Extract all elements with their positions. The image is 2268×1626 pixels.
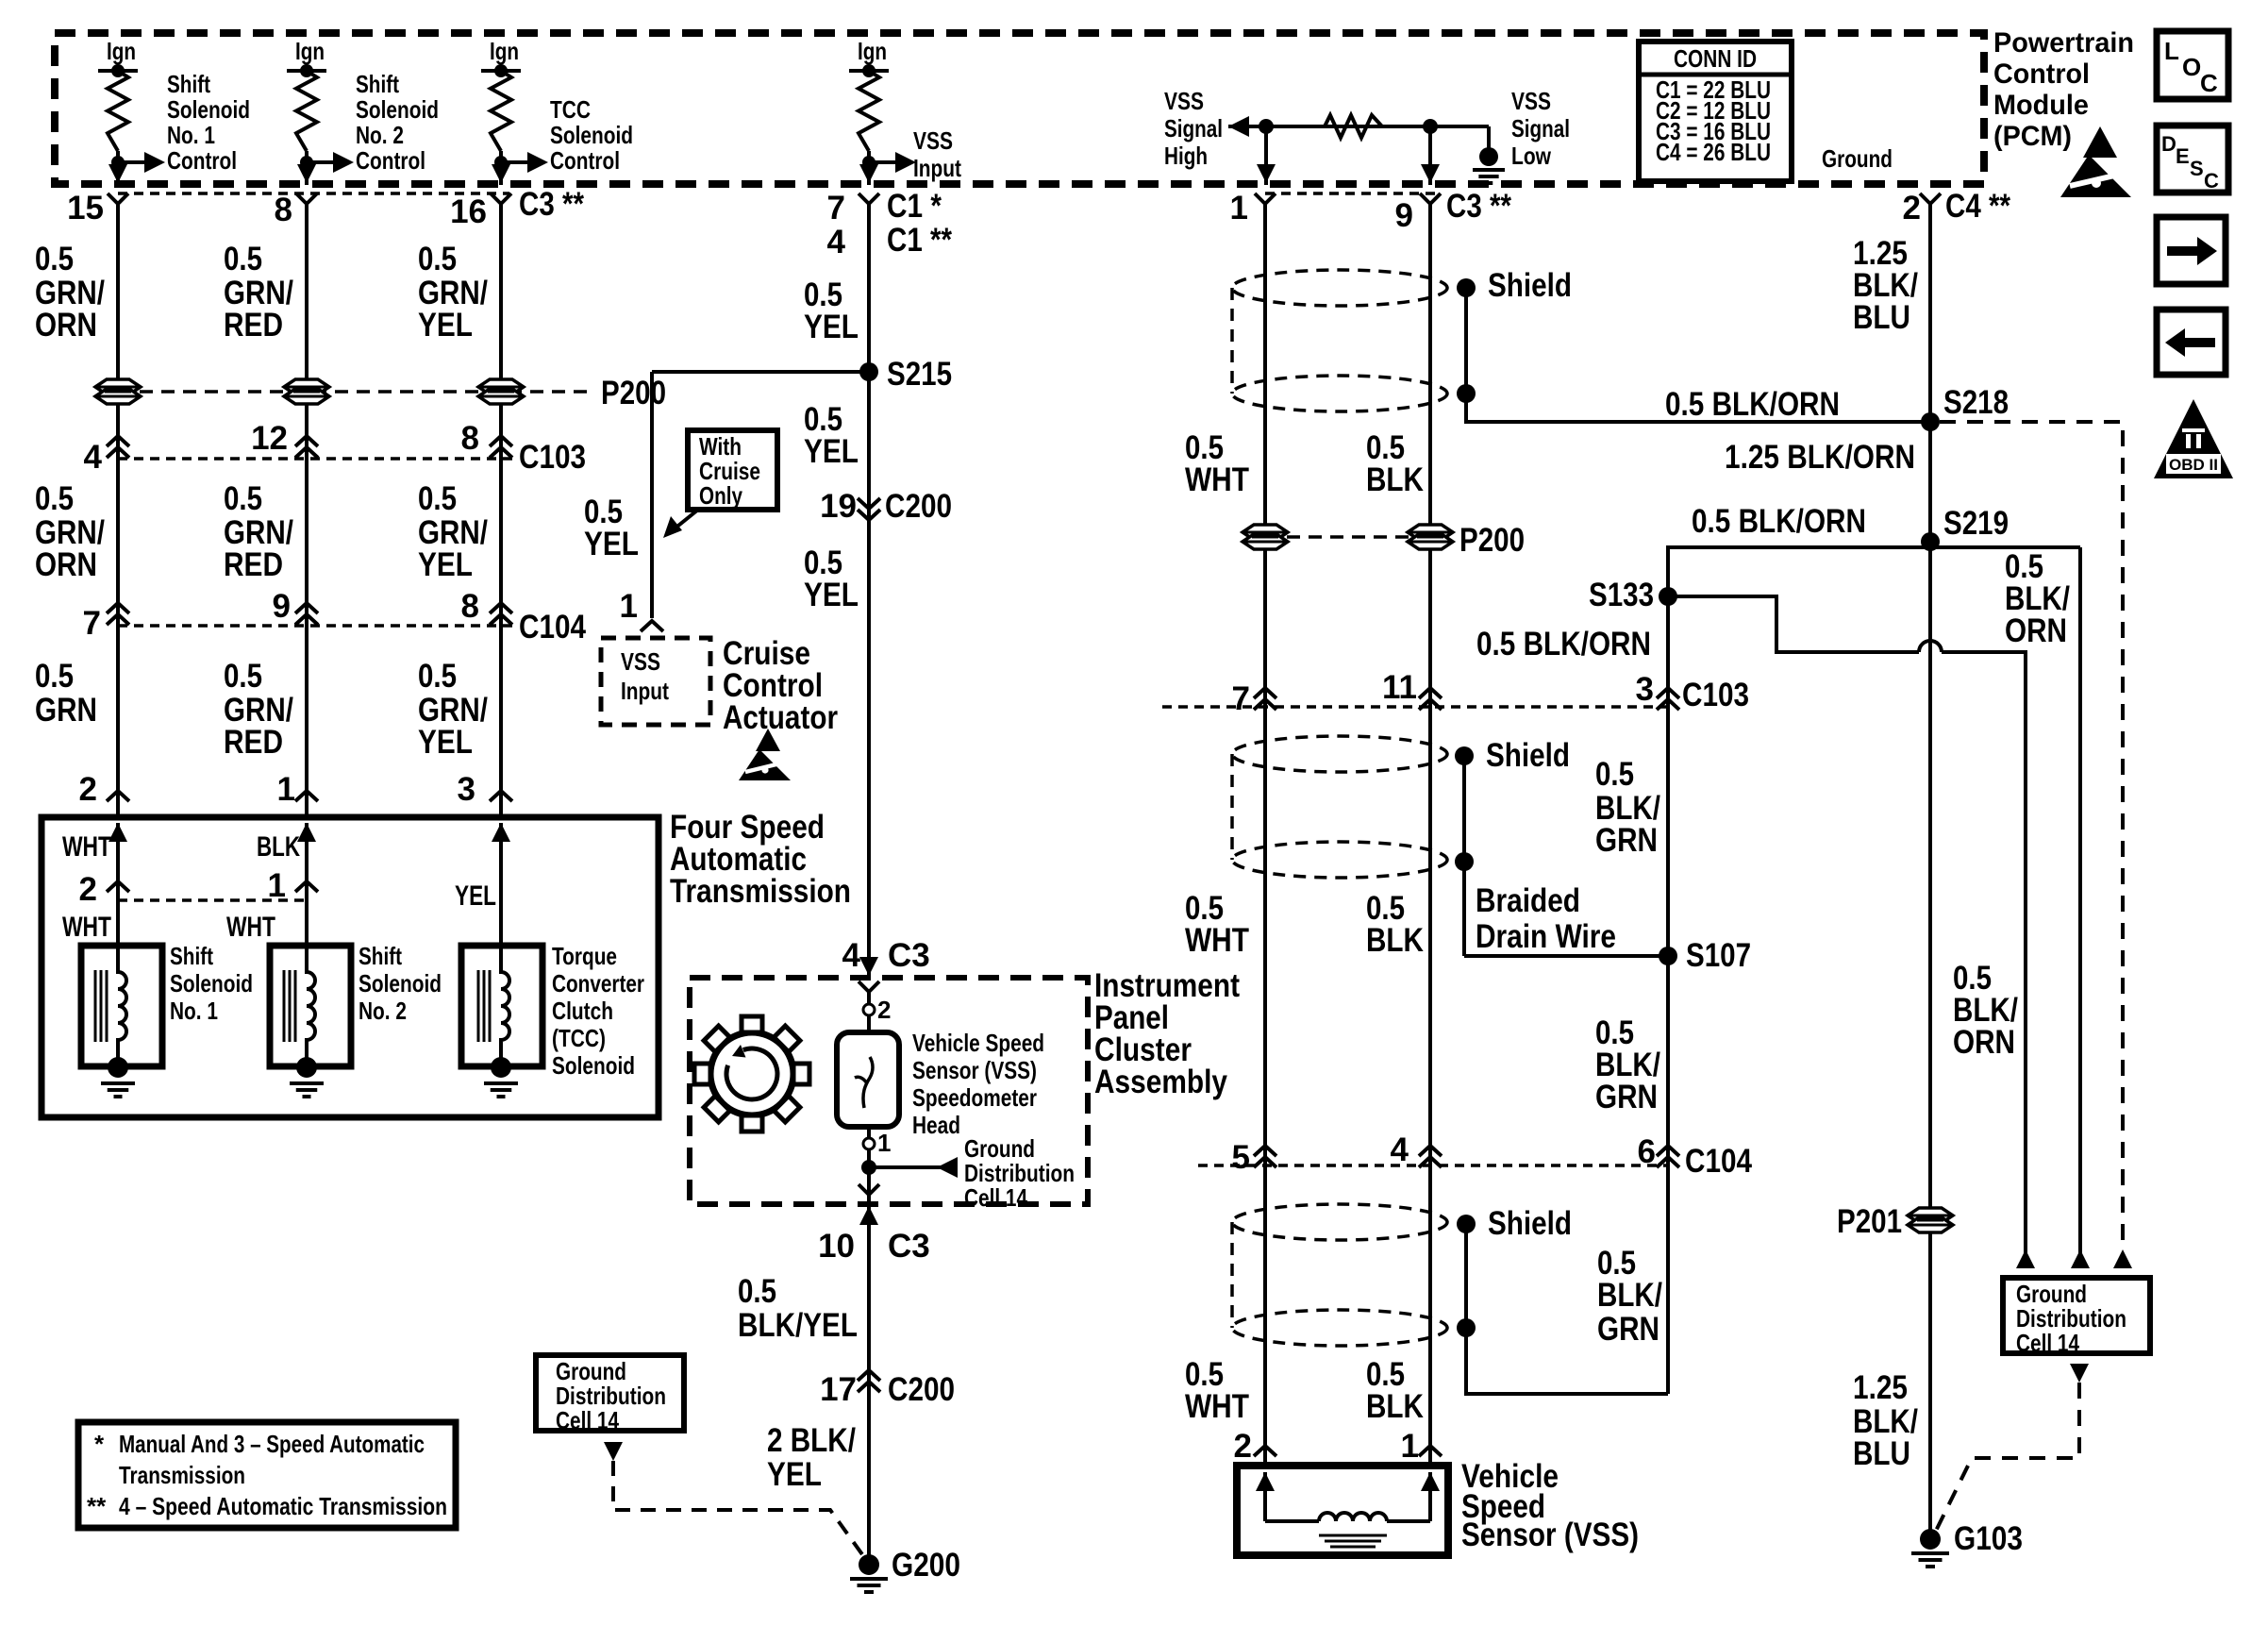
svg-text:2: 2 (1903, 190, 1921, 226)
svg-text:Solenoid: Solenoid (167, 95, 250, 124)
svg-text:VSS: VSS (1511, 87, 1551, 115)
svg-text:Sensor (VSS): Sensor (VSS) (1461, 1517, 1639, 1553)
svg-text:1: 1 (277, 771, 295, 808)
svg-text:15: 15 (67, 190, 104, 226)
svg-text:ORN: ORN (2005, 612, 2067, 649)
svg-text:GRN: GRN (1595, 822, 1658, 859)
svg-text:4: 4 (827, 224, 846, 260)
svg-text:Drain Wire: Drain Wire (1476, 918, 1616, 955)
svg-text:E: E (2176, 144, 2190, 168)
svg-text:0.5: 0.5 (35, 658, 74, 695)
svg-text:Vehicle Speed: Vehicle Speed (912, 1029, 1044, 1057)
svg-text:Solenoid: Solenoid (356, 95, 439, 124)
svg-text:7: 7 (1232, 680, 1250, 717)
svg-text:11: 11 (1382, 669, 1417, 706)
svg-text:0.5: 0.5 (418, 480, 457, 517)
svg-text:10: 10 (818, 1228, 855, 1265)
svg-text:ORN: ORN (35, 307, 97, 344)
svg-text:C3: C3 (888, 1228, 930, 1265)
svg-text:High: High (1164, 142, 1208, 170)
svg-text:VSS: VSS (1164, 87, 1204, 115)
svg-text:WHT: WHT (1185, 461, 1249, 498)
svg-text:4 – Speed Automatic Transmissi: 4 – Speed Automatic Transmission (119, 1492, 447, 1520)
svg-text:Assembly: Assembly (1094, 1064, 1227, 1100)
svg-text:1.25 BLK/ORN: 1.25 BLK/ORN (1725, 439, 1915, 476)
svg-text:0.5: 0.5 (418, 658, 457, 695)
svg-text:Shift: Shift (359, 942, 402, 970)
svg-text:YEL: YEL (584, 526, 639, 562)
svg-text:VSS: VSS (913, 126, 953, 155)
svg-text:YEL: YEL (455, 880, 496, 912)
svg-text:C104: C104 (519, 609, 586, 645)
svg-text:YEL: YEL (418, 724, 473, 761)
svg-text:(TCC): (TCC) (552, 1024, 606, 1052)
svg-text:S219: S219 (1943, 505, 2009, 542)
svg-text:Transmission: Transmission (670, 873, 851, 910)
svg-text:8: 8 (275, 192, 292, 228)
svg-text:Signal: Signal (1164, 114, 1223, 142)
svg-text:2 BLK/: 2 BLK/ (767, 1422, 856, 1459)
svg-text:0.5: 0.5 (224, 658, 262, 695)
svg-text:No. 1: No. 1 (170, 997, 218, 1025)
svg-text:Solenoid: Solenoid (552, 1051, 635, 1080)
svg-text:Control: Control (1993, 59, 2090, 90)
svg-text:**: ** (87, 1492, 107, 1520)
svg-text:Solenoid: Solenoid (170, 969, 253, 997)
svg-text:No. 1: No. 1 (167, 121, 215, 149)
svg-text:C4 **: C4 ** (1945, 188, 2010, 225)
svg-text:C1 *: C1 * (887, 188, 942, 225)
svg-text:OBD II: OBD II (2169, 456, 2218, 474)
svg-text:0.5: 0.5 (35, 241, 74, 277)
svg-text:Solenoid: Solenoid (359, 969, 442, 997)
svg-text:Manual And 3 – Speed Automatic: Manual And 3 – Speed Automatic (119, 1430, 425, 1458)
svg-text:Control: Control (550, 146, 620, 175)
svg-text:1: 1 (1230, 190, 1248, 226)
svg-text:RED: RED (224, 724, 283, 761)
svg-text:Signal: Signal (1511, 114, 1570, 142)
svg-text:Actuator: Actuator (723, 699, 838, 736)
svg-text:Input: Input (621, 677, 669, 705)
svg-text:YEL: YEL (418, 546, 473, 583)
svg-text:0.5 BLK/ORN: 0.5 BLK/ORN (1476, 626, 1651, 662)
svg-text:WHT: WHT (1185, 922, 1249, 959)
svg-text:0.5: 0.5 (418, 241, 457, 277)
svg-text:Ign: Ign (295, 37, 325, 65)
svg-text:C3 **: C3 ** (519, 186, 584, 223)
svg-text:C3: C3 (888, 937, 930, 974)
svg-text:9: 9 (1395, 197, 1413, 234)
svg-text:C3 **: C3 ** (1446, 188, 1511, 225)
svg-text:5: 5 (1232, 1139, 1250, 1176)
svg-text:Cell 14: Cell 14 (964, 1183, 1027, 1212)
svg-text:BLK/YEL: BLK/YEL (738, 1307, 858, 1344)
svg-text:2: 2 (1234, 1428, 1252, 1465)
svg-text:Cell 14: Cell 14 (2016, 1329, 2079, 1357)
svg-text:1: 1 (1401, 1428, 1419, 1465)
svg-text:G103: G103 (1954, 1520, 2023, 1557)
svg-text:Ign: Ign (490, 37, 519, 65)
svg-text:No. 2: No. 2 (356, 121, 404, 149)
svg-text:0.5: 0.5 (1595, 756, 1634, 793)
svg-text:Control: Control (167, 146, 237, 175)
svg-text:8: 8 (461, 588, 479, 625)
svg-text:WHT: WHT (62, 831, 111, 863)
svg-text:19: 19 (820, 488, 857, 525)
svg-text:1: 1 (620, 588, 638, 625)
svg-text:Braided: Braided (1476, 882, 1580, 919)
svg-text:16: 16 (450, 193, 487, 230)
svg-text:4: 4 (84, 439, 103, 476)
svg-text:Shift: Shift (356, 70, 399, 98)
svg-text:S107: S107 (1686, 937, 1751, 974)
svg-text:C103: C103 (1682, 677, 1749, 713)
svg-text:Transmission: Transmission (119, 1461, 245, 1489)
svg-text:TCC: TCC (550, 95, 591, 124)
svg-text:BLU: BLU (1853, 299, 1910, 336)
svg-text:YEL: YEL (767, 1456, 822, 1493)
svg-text:GRN: GRN (1597, 1311, 1659, 1348)
svg-text:Solenoid: Solenoid (550, 121, 633, 149)
svg-text:2: 2 (79, 771, 97, 808)
svg-text:S133: S133 (1589, 577, 1654, 613)
svg-text:No. 2: No. 2 (359, 997, 407, 1025)
svg-text:ORN: ORN (1953, 1024, 2015, 1061)
svg-text:Low: Low (1511, 142, 1552, 170)
svg-text:17: 17 (820, 1371, 857, 1408)
svg-text:C200: C200 (888, 1371, 955, 1408)
svg-text:C1 **: C1 ** (887, 222, 952, 259)
svg-text:0.5 BLK/ORN: 0.5 BLK/ORN (1692, 503, 1866, 540)
svg-text:0.5: 0.5 (224, 480, 262, 517)
svg-text:Only: Only (699, 481, 742, 510)
svg-text:Ground: Ground (1822, 144, 1893, 173)
svg-text:Module: Module (1993, 90, 2089, 121)
svg-text:(PCM): (PCM) (1993, 121, 2072, 152)
svg-text:RED: RED (224, 546, 283, 583)
svg-text:3: 3 (458, 771, 475, 808)
svg-text:GRN: GRN (1595, 1079, 1658, 1115)
svg-text:D: D (2161, 132, 2176, 156)
svg-text:WHT: WHT (1185, 1388, 1249, 1425)
svg-text:CONN ID: CONN ID (1674, 44, 1757, 73)
svg-text:12: 12 (251, 420, 288, 457)
svg-text:Ign: Ign (858, 37, 887, 65)
svg-text:Shift: Shift (170, 942, 213, 970)
svg-text:YEL: YEL (804, 577, 859, 613)
svg-text:S218: S218 (1943, 384, 2009, 421)
svg-text:BLK: BLK (1366, 1388, 1424, 1425)
svg-text:YEL: YEL (418, 307, 473, 344)
svg-text:Torque: Torque (552, 942, 617, 970)
svg-text:6: 6 (1638, 1133, 1656, 1170)
svg-text:S215: S215 (887, 356, 952, 393)
svg-text:Head: Head (912, 1111, 960, 1139)
svg-text:BLK: BLK (257, 831, 300, 863)
svg-text:WHT: WHT (62, 912, 111, 943)
svg-text:4: 4 (1391, 1131, 1409, 1168)
svg-text:C103: C103 (519, 439, 586, 476)
svg-text:2: 2 (79, 871, 97, 908)
svg-text:C: C (2200, 69, 2218, 97)
svg-text:2: 2 (877, 996, 891, 1024)
svg-text:L: L (2164, 37, 2179, 65)
svg-text:1.25: 1.25 (1853, 1369, 1908, 1406)
svg-text:RED: RED (224, 307, 283, 344)
svg-text:BLK: BLK (1366, 922, 1424, 959)
svg-text:Shield: Shield (1486, 737, 1570, 774)
svg-text:G200: G200 (892, 1547, 960, 1584)
svg-text:0.5: 0.5 (224, 241, 262, 277)
svg-text:Ign: Ign (107, 37, 136, 65)
svg-text:BLK: BLK (1366, 461, 1424, 498)
svg-text:3: 3 (1636, 671, 1654, 708)
svg-text:9: 9 (273, 588, 291, 625)
svg-text:S: S (2190, 157, 2204, 180)
svg-text:VSS: VSS (621, 647, 660, 676)
svg-text:8: 8 (461, 420, 479, 457)
svg-text:ORN: ORN (35, 546, 97, 583)
svg-text:Shield: Shield (1488, 1205, 1572, 1242)
svg-text:C4 = 26 BLU: C4 = 26 BLU (1656, 138, 1771, 166)
svg-text:P201: P201 (1837, 1203, 1902, 1240)
svg-text:C104: C104 (1685, 1143, 1752, 1180)
svg-text:C200: C200 (885, 488, 952, 525)
svg-text:Powertrain: Powertrain (1993, 27, 2134, 59)
svg-text:Shift: Shift (167, 70, 210, 98)
svg-text:Control: Control (356, 146, 425, 175)
svg-text:YEL: YEL (804, 433, 859, 470)
svg-text:7: 7 (83, 605, 101, 642)
svg-text:BLU: BLU (1853, 1435, 1910, 1472)
svg-text:0.5: 0.5 (35, 480, 74, 517)
svg-text:Shield: Shield (1488, 267, 1572, 304)
svg-text:Cell 14: Cell 14 (556, 1406, 619, 1434)
svg-text:7: 7 (827, 190, 845, 226)
svg-text:C: C (2204, 169, 2219, 193)
svg-text:1: 1 (877, 1129, 891, 1157)
svg-text:0.5 BLK/ORN: 0.5 BLK/ORN (1665, 386, 1840, 423)
svg-text:0.5: 0.5 (738, 1273, 776, 1310)
svg-text:P200: P200 (1459, 522, 1525, 559)
svg-text:YEL: YEL (804, 309, 859, 345)
svg-text:1: 1 (268, 867, 286, 904)
svg-text:4: 4 (842, 937, 861, 974)
svg-text:*: * (94, 1430, 105, 1458)
svg-text:Clutch: Clutch (552, 997, 613, 1025)
svg-text:P200: P200 (601, 375, 666, 411)
svg-text:BLK/: BLK/ (1597, 1277, 1662, 1314)
svg-text:Speedometer: Speedometer (912, 1083, 1037, 1112)
svg-text:O: O (2182, 53, 2201, 81)
svg-text:Sensor (VSS): Sensor (VSS) (912, 1056, 1037, 1084)
svg-text:Converter: Converter (552, 969, 644, 997)
svg-text:Input: Input (913, 154, 961, 182)
svg-text:GRN: GRN (35, 692, 97, 729)
svg-text:WHT: WHT (226, 912, 275, 943)
